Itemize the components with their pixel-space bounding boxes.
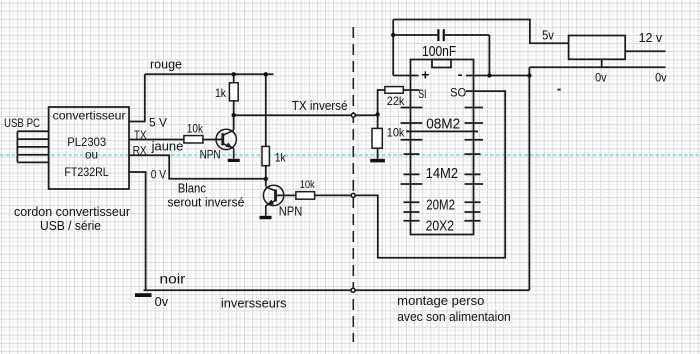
svg-text:0 V: 0 V — [151, 167, 166, 181]
svg-text:cordon convertisseur: cordon convertisseur — [14, 204, 131, 219]
svg-text:convertisseur: convertisseur — [53, 109, 126, 123]
svg-text:NPN: NPN — [200, 147, 221, 161]
svg-text:10k: 10k — [300, 179, 315, 191]
svg-text:FT232RL: FT232RL — [64, 165, 109, 179]
svg-text:+: + — [421, 67, 429, 83]
svg-text:20M2: 20M2 — [426, 197, 455, 213]
svg-text:10k: 10k — [187, 121, 204, 135]
svg-text:20X2: 20X2 — [426, 219, 454, 235]
svg-text:montage perso: montage perso — [397, 293, 484, 308]
svg-text:1k: 1k — [215, 86, 227, 100]
svg-text:NPN: NPN — [279, 204, 303, 219]
svg-text:0v: 0v — [595, 70, 607, 84]
svg-text:rouge: rouge — [150, 57, 182, 72]
svg-text:USB PC: USB PC — [4, 116, 40, 130]
svg-text:USB / série: USB / série — [40, 218, 101, 233]
svg-text:1k: 1k — [275, 151, 287, 165]
svg-text:0v: 0v — [655, 70, 667, 84]
svg-text:-: - — [458, 66, 463, 82]
svg-text:ou: ou — [85, 148, 98, 162]
svg-text:100nF: 100nF — [422, 43, 456, 60]
svg-text:Blanc: Blanc — [178, 180, 207, 195]
svg-text:avec son alimentaion: avec son alimentaion — [397, 309, 511, 324]
svg-text:SI: SI — [418, 87, 426, 101]
svg-text:SO: SO — [450, 86, 466, 100]
svg-text:inversseurs: inversseurs — [221, 296, 287, 311]
svg-text:jaune: jaune — [151, 139, 184, 154]
svg-text:TX: TX — [134, 128, 147, 142]
svg-text:22k: 22k — [387, 94, 405, 108]
svg-text:0v: 0v — [155, 294, 169, 309]
svg-text:RX: RX — [133, 143, 147, 157]
svg-text:08M2: 08M2 — [426, 117, 460, 133]
svg-text:TX inversé: TX inversé — [292, 98, 348, 113]
svg-text:5 V: 5 V — [149, 116, 167, 130]
svg-text:5v: 5v — [542, 28, 554, 43]
svg-text:12 v: 12 v — [639, 30, 663, 45]
svg-text:noir: noir — [160, 271, 186, 287]
svg-text:serout inversé: serout inversé — [167, 195, 244, 210]
svg-text:14M2: 14M2 — [426, 166, 459, 182]
svg-text:10k: 10k — [387, 126, 405, 140]
